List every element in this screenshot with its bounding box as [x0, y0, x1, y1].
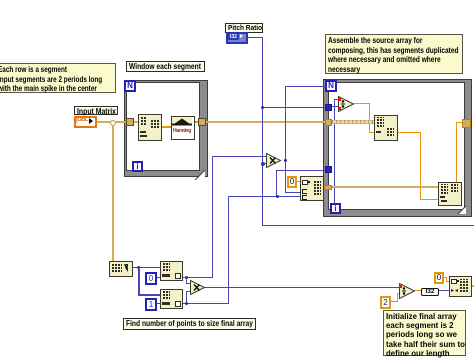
wire: loop2 interior i to divide2 (blue) — [334, 99, 335, 204]
wire: matrix wire down to Matrix Size (tan) — [112, 125, 114, 262]
divide node 3 (bottom right, with coercion dot) — [399, 283, 416, 299]
tunnel: loop1 right (tan) — [198, 118, 206, 126]
wire: pitch ratio terminal right then down (blue) — [248, 37, 263, 38]
conversion node I32 — [421, 288, 439, 296]
for-loop 1 N box — [124, 80, 136, 92]
for-loop 1 fold corner — [195, 170, 205, 180]
for-loop 1 (Window each segment) border — [124, 80, 208, 177]
constant: 1 (blue) — [145, 298, 157, 311]
label: Find number of points to size final array — [123, 318, 256, 330]
tunnel: loop2 matrix in (orange) — [325, 119, 332, 126]
wire: wavy matrix wire into loop2 icon — [332, 120, 374, 124]
node: index1 output dot — [185, 276, 188, 279]
wire: size down to index2 (blue) — [138, 268, 140, 295]
for-loop 2 (assemble) border — [323, 79, 472, 217]
constant: 2 (orange, bottom right) — [380, 296, 391, 309]
tunnel: loop2 init array in (orange) — [324, 185, 332, 190]
tunnel: loop1 left (tan) — [126, 118, 134, 126]
constant: 0 (orange, top of init R) — [434, 272, 444, 284]
wire: divide2 output to matrix icon (orange) — [354, 103, 370, 104]
wire: multiply2 output down to init array rows input (blue) — [285, 161, 286, 192]
comment note: initialize final array — [383, 310, 466, 356]
wire: index2 up to multiply1 bottom (blue) — [186, 291, 187, 303]
wire: icon2R output up to right tunnel (orange) — [456, 122, 457, 183]
wire: divide3 output to I32 (orange) — [415, 290, 422, 291]
node: index2 output dot — [185, 302, 188, 305]
wire: loop2 tunnel pitch to divide2 lower input (blue) — [331, 106, 339, 107]
wire: matrix icon1R output to icon2R (orange) — [396, 132, 421, 133]
wire: matrix size output (blue) — [131, 267, 161, 268]
wire: index1 down to multiply1 top (blue) — [186, 277, 187, 283]
label: Pitch Ratio — [225, 23, 263, 33]
wire: const 0 to init array R (orange) — [443, 277, 447, 278]
for-loop 2 i box — [330, 203, 341, 214]
icon: Initialize Array (bottom right) — [449, 276, 472, 297]
icon: Index Array 1 — [160, 289, 183, 309]
icon: build matrix (loop2 bottom) — [438, 182, 462, 206]
wire: const 1 to index2 (blue) — [155, 303, 161, 304]
node: multiply2 output dot — [284, 159, 287, 162]
icon: get submatrix (loop2 top) — [374, 115, 398, 141]
label: Input Matrix — [74, 106, 118, 115]
wire: loop1 interior tunnel to icon A (tan) — [133, 121, 139, 123]
tunnel: loop2 pitch (blue filled) — [325, 104, 332, 111]
icon: Hanning window VI — [171, 116, 195, 140]
multiply node 2 (middle) — [266, 153, 282, 168]
comment note: each row is a segment — [0, 63, 116, 93]
for-loop 1 i box — [132, 161, 143, 172]
wire: multiply2 output up to loop2 N (blue) — [285, 86, 286, 161]
wire: pitch ratio long bottom run at y=225 (blue) — [262, 225, 474, 226]
wire: rows count vertical x=213 to multiply2 top input (blue) — [212, 156, 213, 277]
wire: I32 to init array R (blue) — [438, 290, 450, 291]
wire: const 0 to index1 (blue) — [155, 277, 161, 278]
wire: loop1 out to loop2 orange tunnel (tan 2D array) — [206, 121, 325, 123]
icon: Matrix Size VI — [109, 261, 133, 277]
constant: 0 (orange, middle) — [287, 176, 297, 188]
icon: Initialize Array (middle) — [300, 176, 324, 201]
wire: pitch dot to multiply2 lower input (blue) — [262, 163, 268, 164]
wire: pitch ratio branch to loop2 tunnel (blue) — [262, 107, 325, 108]
constant: 0 (blue) — [145, 272, 157, 285]
divide node 2 (in loop2, with coercion dots) — [338, 96, 355, 112]
wire: const 2 to divide3 (orange) — [390, 301, 398, 302]
for-loop 2 fold corner — [457, 205, 466, 214]
tunnel: loop2 right out (orange) — [462, 119, 471, 128]
wire: const 0 to init array mid (orange) — [296, 181, 301, 182]
multiply node 1 (bottom) — [190, 280, 206, 295]
wire: Input Matrix to loop1 tunnel (tan) — [96, 121, 128, 123]
wire: init array R output to edge (tan) — [470, 285, 474, 287]
terminal: Pitch Ratio I32 — [226, 32, 248, 44]
node: junction dot pitch/tunnel — [261, 106, 264, 109]
wire: icon A to Hanning (orange) — [161, 126, 172, 128]
wire: multiply1 output long run to divide3 (blue) — [205, 287, 400, 288]
comment note: assemble the source array — [325, 34, 463, 74]
tunnel: loop2 length (blue filled) — [325, 166, 332, 173]
node: matrix size output dot — [137, 266, 140, 269]
for-loop 2 N box — [325, 80, 337, 92]
icon: window/index inside loop1 — [138, 114, 162, 141]
terminal: Input Matrix [DBL] — [74, 116, 97, 128]
wire: length branch up to loop2 tunnel (blue) — [276, 170, 277, 196]
node: junction dot pitch/multiply — [261, 162, 265, 166]
wire junction circle on matrix wire — [110, 120, 116, 126]
label: Window each segment — [126, 61, 205, 72]
wire: init array tunnel to icon2R (tan) — [332, 186, 439, 188]
wire: Hanning to right tunnel (orange) — [194, 121, 199, 123]
wire: index2 output to dot (blue) — [181, 303, 229, 304]
icon: Index Array 0 — [160, 261, 183, 281]
wire: segment length vertical x=228 up (blue) — [228, 196, 229, 303]
wire: index1 output to dot (blue) — [181, 277, 213, 278]
node: junction dot length wire — [276, 195, 279, 198]
